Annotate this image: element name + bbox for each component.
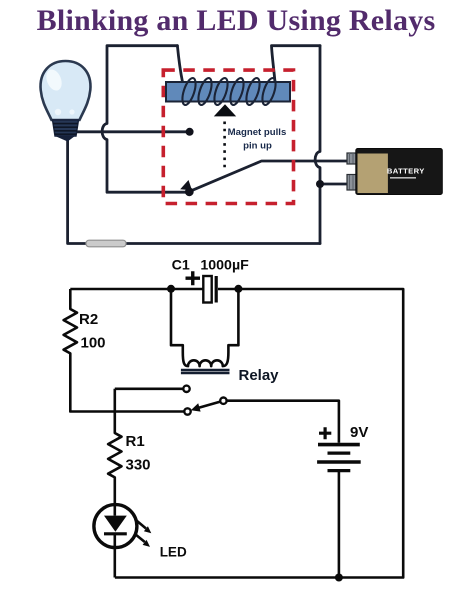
svg-text:Magnet pulls: Magnet pulls [228, 127, 287, 138]
svg-text:1000µF: 1000µF [200, 258, 249, 274]
svg-text:C1: C1 [172, 258, 190, 274]
svg-text:Blinking an LED Using Relays: Blinking an LED Using Relays [37, 4, 436, 37]
svg-text:R1: R1 [126, 433, 145, 450]
svg-text:LED: LED [160, 545, 187, 560]
svg-text:R2: R2 [79, 311, 98, 328]
svg-text:Relay: Relay [239, 367, 280, 384]
svg-text:100: 100 [81, 335, 106, 352]
svg-text:9V: 9V [350, 424, 368, 441]
svg-text:330: 330 [126, 457, 151, 474]
svg-text:pin up: pin up [243, 141, 272, 152]
svg-text:BATTERY: BATTERY [387, 167, 425, 176]
